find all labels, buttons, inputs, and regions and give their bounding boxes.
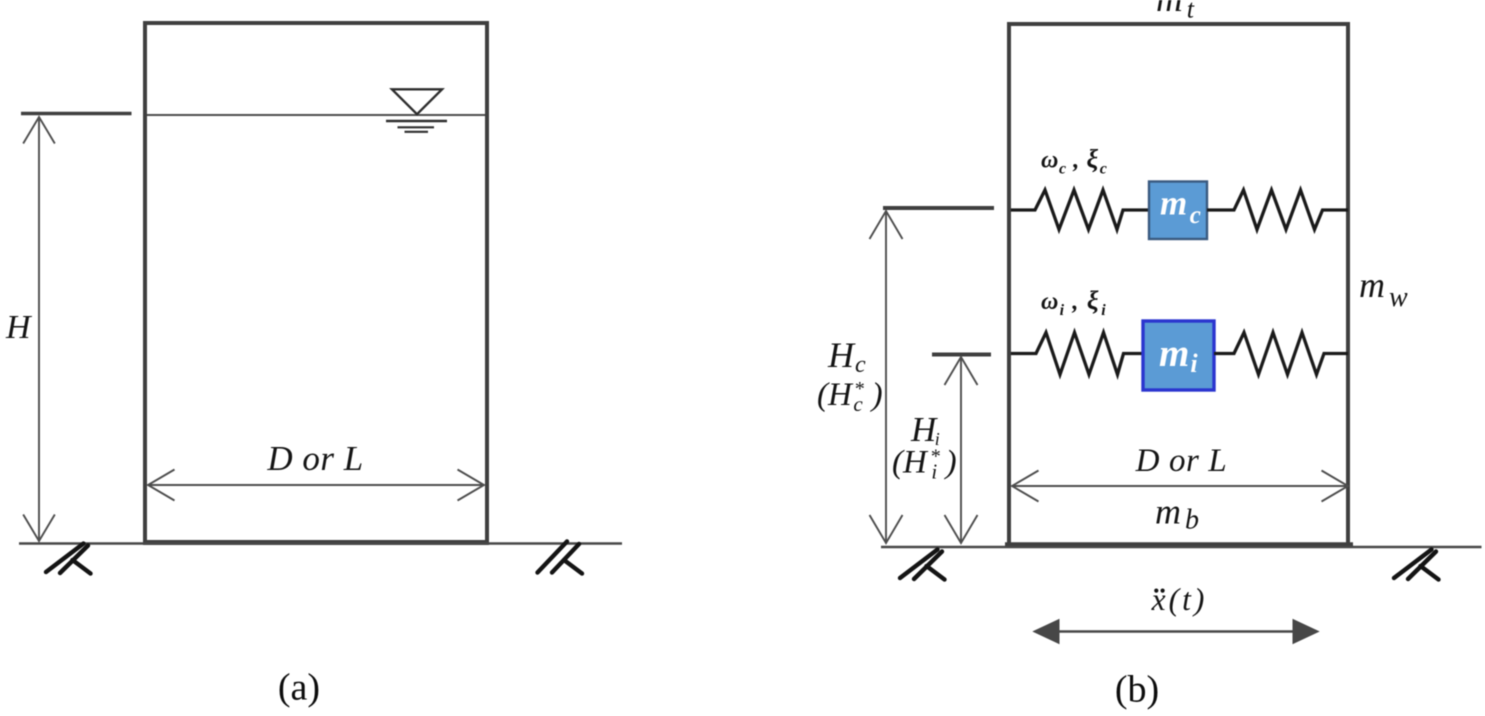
water surface symbol (inverted triangle with ripples) <box>386 89 447 132</box>
svg-text:mb: mb <box>1155 492 1199 536</box>
svg-text:mw: mw <box>1359 265 1408 313</box>
mass m_c box <box>1149 182 1207 240</box>
svg-text:ωi , ξi: ωi , ξi <box>1041 286 1107 319</box>
mass m_i box <box>1143 321 1214 390</box>
tank (b) walls <box>1009 24 1348 543</box>
ground hatch (b) right <box>1394 550 1439 580</box>
svg-text:x(t): x(t) <box>1151 582 1208 617</box>
svg-text:Hi: Hi <box>910 410 940 449</box>
ground line (b) <box>881 546 1482 549</box>
dimension arrow H (vertical, open heads) <box>23 117 55 541</box>
base excitation double arrow <box>1034 620 1319 644</box>
ground line (a) <box>19 542 622 545</box>
tank (a) base slab (thick) <box>143 540 489 545</box>
ground hatch (a) left <box>46 544 91 574</box>
svg-text:(b): (b) <box>1115 669 1159 711</box>
svg-text:(H*c): (H*c) <box>817 377 883 416</box>
svg-text:H: H <box>5 309 33 346</box>
dimension arrow H_c <box>870 211 903 543</box>
svg-text:D or L: D or L <box>1135 443 1228 479</box>
diaeresis dots over x <box>1154 589 1158 593</box>
water free-surface line <box>147 114 485 116</box>
tank (b) base slab (thick) <box>1005 542 1353 548</box>
svg-text:(a): (a) <box>278 667 320 709</box>
spring lower-right <box>1214 333 1348 375</box>
dimension arrow H_i <box>945 357 978 543</box>
svg-text:Hc: Hc <box>827 335 866 378</box>
svg-text:ωc , ξc: ωc , ξc <box>1041 145 1107 178</box>
spring lower-left <box>1011 333 1143 375</box>
spring upper-right <box>1207 190 1348 230</box>
water level reference line (left, thick) <box>21 112 132 116</box>
impulsive level reference line <box>932 353 991 357</box>
dimension arrow D or L (b) <box>1012 471 1348 502</box>
svg-text:D or L: D or L <box>266 439 363 478</box>
ground hatch (b) left <box>900 550 945 580</box>
svg-text:(H*i): (H*i) <box>892 445 957 484</box>
tank (a) walls and roofless rectangle <box>145 23 487 543</box>
ground hatch (a) right <box>538 542 583 574</box>
convective level reference line <box>883 206 994 210</box>
svg-text:mt: mt <box>1156 0 1195 24</box>
dimension arrow D or L (a) <box>148 470 484 501</box>
spring upper-left <box>1011 190 1149 230</box>
